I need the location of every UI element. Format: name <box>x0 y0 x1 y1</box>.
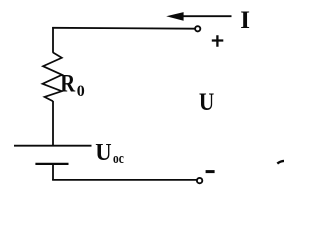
wire bottom horizontal <box>52 179 197 181</box>
stray mark right edge <box>277 161 284 164</box>
wire vertical below battery <box>52 164 54 180</box>
svg-text:U: U <box>95 140 111 166</box>
minus sign <box>206 170 215 173</box>
terminal top circle <box>195 26 200 31</box>
svg-text:R: R <box>60 70 76 97</box>
current arrow line <box>180 15 232 17</box>
battery Uoc top plate <box>14 145 92 147</box>
terminal bottom circle <box>197 178 202 183</box>
svg-text:U: U <box>199 89 214 116</box>
battery Uoc bottom plate <box>35 163 68 165</box>
svg-text:oc: oc <box>113 151 124 167</box>
wire top horizontal <box>52 27 195 30</box>
svg-text:I: I <box>240 7 250 34</box>
plus sign <box>212 35 224 47</box>
wire left vertical upper <box>52 27 54 53</box>
resistor R0 zigzag <box>43 53 63 102</box>
wire vertical below resistor <box>52 101 54 146</box>
svg-text:0: 0 <box>77 83 85 100</box>
current arrow head <box>166 12 183 21</box>
